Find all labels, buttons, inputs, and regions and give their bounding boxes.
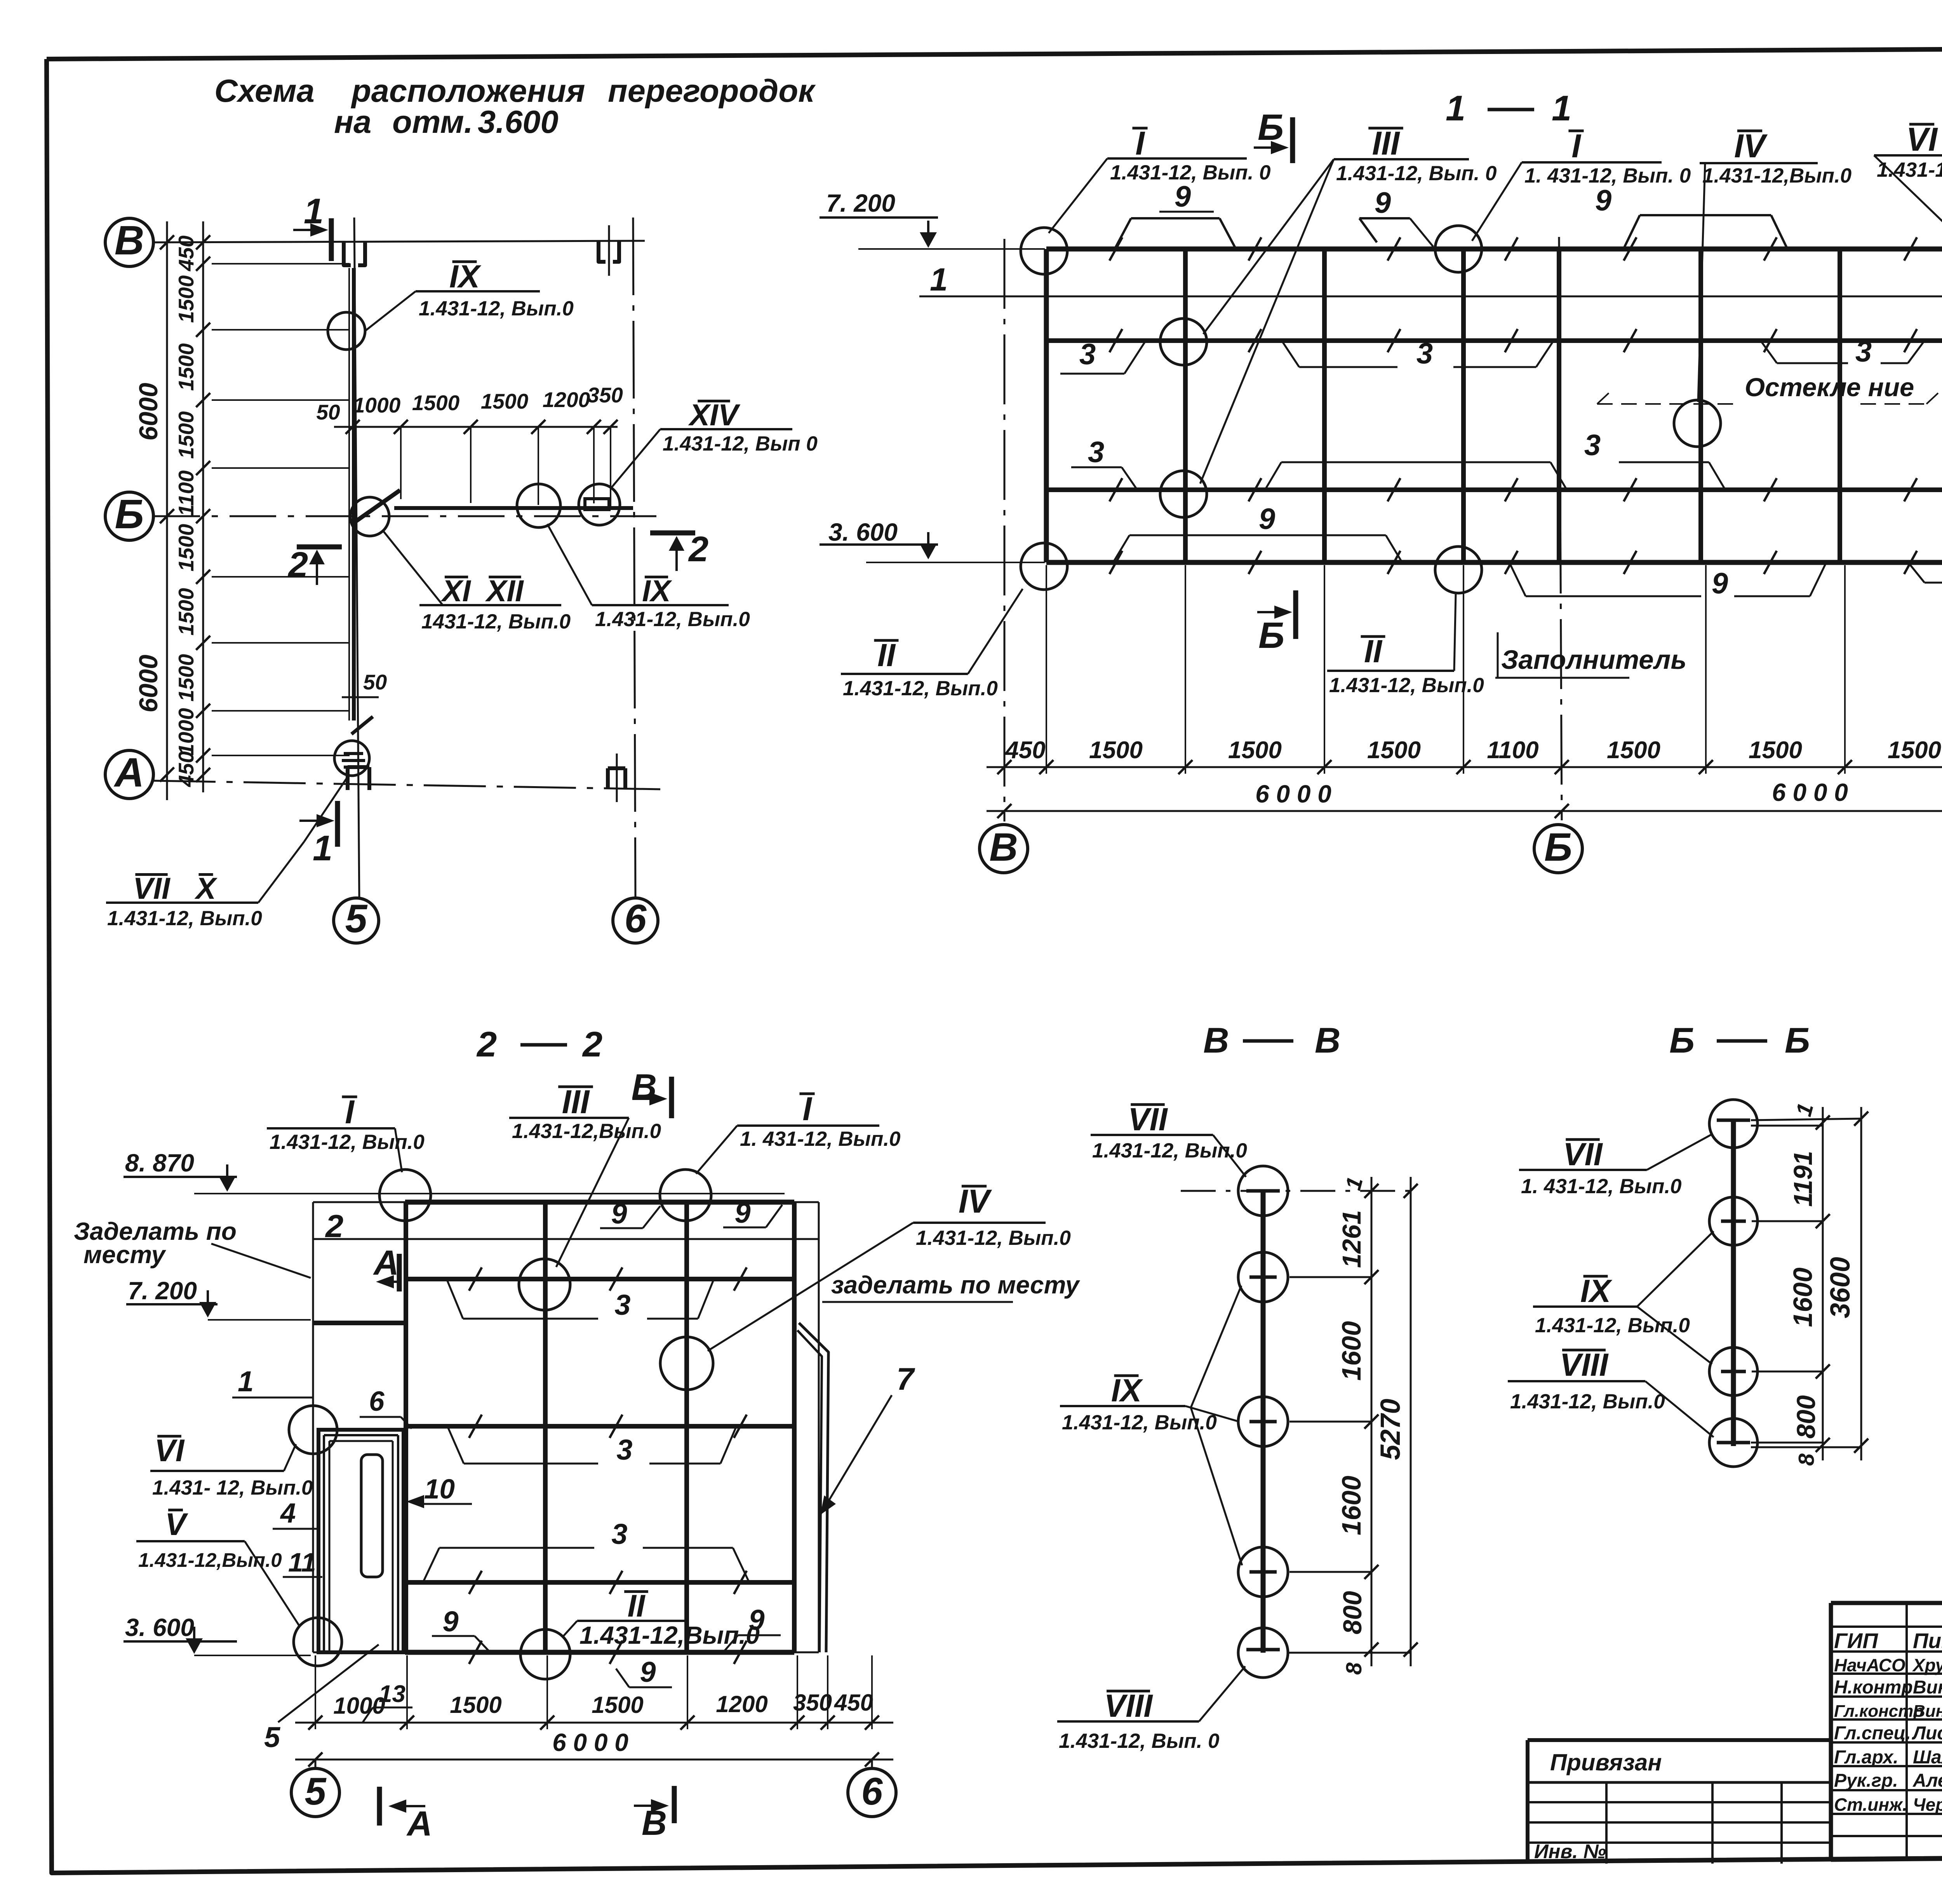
svg-text:VIII: VIII [1104, 1688, 1153, 1724]
svg-text:II: II [627, 1589, 646, 1624]
plan callout circle IX (wall 5) [328, 258, 574, 350]
1-1 pos 9 bracket top-right [1595, 184, 1787, 249]
svg-text:9: 9 [611, 1197, 627, 1230]
svg-text:Схема: Схема [214, 73, 315, 109]
1-1 Остекление label [1597, 373, 1938, 404]
svg-text:1600: 1600 [1336, 1476, 1366, 1535]
plan 50 offset label (lower) [342, 670, 387, 697]
Б-Б callout IX [1533, 1231, 1714, 1364]
svg-text:2: 2 [476, 1025, 497, 1064]
2-2 junction circles [379, 1170, 431, 1221]
svg-text:7. 200: 7. 200 [128, 1277, 197, 1305]
2-2 thick chords [405, 1202, 794, 1652]
svg-text:6000: 6000 [134, 383, 163, 440]
svg-text:1261: 1261 [1337, 1210, 1366, 1268]
В-В dim line outer [1375, 1177, 1418, 1666]
1-1 circle I-right [1435, 226, 1482, 272]
svg-text:II: II [877, 637, 896, 673]
svg-text:9: 9 [640, 1656, 656, 1688]
svg-text:1191: 1191 [1789, 1151, 1818, 1207]
plan column 5/B [344, 241, 365, 265]
svg-text:800: 800 [1792, 1395, 1821, 1439]
Б-Б callout VIII [1508, 1347, 1714, 1437]
svg-text:350: 350 [793, 1690, 832, 1716]
svg-text:1600: 1600 [1788, 1267, 1818, 1327]
svg-text:1.431-12, Вып.0: 1.431-12, Вып.0 [1092, 1139, 1247, 1162]
svg-text:Пивторак: Пивторак [1913, 1629, 1942, 1653]
svg-text:3600: 3600 [1825, 1257, 1856, 1318]
svg-text:1500: 1500 [1888, 737, 1941, 764]
2-2 label заделать по месту (right) [822, 1271, 1081, 1302]
2-2 section mark А top [373, 1244, 399, 1291]
В-В circles [1238, 1166, 1288, 1678]
2-2 section mark В bottom [634, 1786, 674, 1843]
svg-text:1.431-12, Вып 0: 1.431-12, Вып 0 [663, 432, 818, 455]
svg-text:1.431-12, Вып. 0: 1.431-12, Вып. 0 [1336, 162, 1497, 185]
svg-text:2: 2 [287, 545, 308, 585]
svg-text:4: 4 [280, 1498, 296, 1529]
1-1 pos label 1 [919, 261, 1942, 298]
svg-text:1: 1 [1446, 89, 1465, 128]
svg-text:6 0 0 0: 6 0 0 0 [552, 1728, 628, 1756]
svg-text:1.431-12, Вып.0: 1.431-12, Вып.0 [595, 608, 750, 631]
svg-text:1.431-12, Вып.0: 1.431-12, Вып.0 [843, 677, 998, 700]
svg-text:месту: месту [84, 1241, 167, 1269]
svg-text:9: 9 [1712, 567, 1728, 600]
svg-text:1500: 1500 [1367, 737, 1421, 764]
1-1 bottom dim extension lines [1046, 565, 1942, 774]
svg-text:перегородок: перегородок [608, 73, 816, 109]
2-2 callout IV [708, 1183, 1071, 1351]
1-1 callout II left [841, 589, 1023, 700]
Б-Б callout VII [1519, 1134, 1712, 1198]
svg-text:Ст.инж.: Ст.инж. [1834, 1794, 1907, 1815]
1-1 callout III [1200, 125, 1497, 484]
plan grid circle B [105, 218, 153, 266]
1-1 grid circle В [980, 825, 1028, 873]
svg-text:1100: 1100 [174, 470, 198, 516]
1-1 grid circle Б [1534, 825, 1582, 873]
svg-text:Рук.гр.: Рук.гр. [1834, 1770, 1898, 1791]
svg-text:1. 431-12, Вып.0: 1. 431-12, Вып.0 [1521, 1175, 1682, 1198]
svg-text:1.431-12,Вып.0: 1.431-12,Вып.0 [138, 1549, 282, 1571]
svg-text:3: 3 [1855, 335, 1872, 368]
2-2 callout II [562, 1589, 760, 1649]
svg-text:1500: 1500 [174, 524, 198, 571]
svg-text:Привязан: Привязан [1550, 1749, 1662, 1775]
2-2 callout V [136, 1507, 300, 1627]
svg-text:VI: VI [155, 1433, 185, 1468]
svg-text:Б: Б [1544, 825, 1572, 869]
svg-text:2: 2 [325, 1208, 343, 1244]
svg-text:IX: IX [642, 574, 672, 608]
2-2 label Заделать по месту (left) [74, 1217, 311, 1278]
svg-text:VII: VII [133, 871, 171, 905]
svg-text:6: 6 [861, 1770, 883, 1813]
plan axis line B [153, 241, 645, 242]
section Б-Б title [1669, 1021, 1810, 1060]
plan callout circle IX (wall Б) [517, 484, 750, 631]
В-В post [1246, 1191, 1280, 1653]
svg-text:1500: 1500 [1228, 737, 1282, 764]
svg-text:1.431-12, Вып.0: 1.431-12, Вып.0 [1329, 674, 1484, 697]
Б-Б circles [1709, 1100, 1758, 1467]
1-1 pos 3 rail2 right bracket [1761, 335, 1925, 368]
svg-text:5: 5 [345, 896, 368, 941]
1-1 junction circles [1021, 228, 1067, 274]
plan dim extension lines [153, 242, 350, 755]
1-1 section mark Б top [1254, 107, 1293, 163]
svg-text:5270: 5270 [1375, 1399, 1406, 1460]
svg-text:5: 5 [305, 1770, 327, 1813]
svg-text:50: 50 [316, 400, 340, 424]
plan grid circle А [105, 750, 153, 799]
svg-text:Гл.спец.: Гл.спец. [1834, 1723, 1911, 1744]
svg-text:1500: 1500 [174, 411, 198, 459]
2-2 pos 3 brackets [423, 1279, 749, 1582]
1-1 callout II right [1327, 594, 1484, 697]
svg-text:Шаломеев: Шаломеев [1913, 1747, 1942, 1768]
2-2 pos labels [232, 1365, 313, 1398]
svg-text:XII: XII [485, 574, 524, 608]
2-2 posts [406, 1202, 794, 1652]
svg-text:3. 600: 3. 600 [125, 1613, 194, 1641]
svg-text:50: 50 [363, 670, 387, 694]
plan column 6/B [599, 225, 619, 276]
svg-text:6 0 0 0: 6 0 0 0 [1255, 780, 1331, 808]
svg-text:3. 600: 3. 600 [828, 518, 898, 546]
svg-text:1100: 1100 [1487, 737, 1538, 764]
svg-text:Винклер: Винклер [1913, 1677, 1942, 1698]
1-1 frame chords [1046, 249, 1942, 562]
svg-text:Н.контр: Н.контр [1834, 1677, 1913, 1698]
svg-text:1500: 1500 [412, 391, 460, 415]
svg-text:9: 9 [1595, 184, 1611, 217]
В-В callout IX [1060, 1286, 1242, 1565]
svg-text:1.431-12, Вып. 0: 1.431-12, Вып. 0 [1877, 158, 1942, 181]
svg-text:1500: 1500 [1607, 737, 1660, 764]
section В-В title [1203, 1021, 1340, 1060]
svg-text:V: V [165, 1507, 188, 1542]
svg-text:1500: 1500 [481, 389, 529, 413]
svg-text:1: 1 [930, 261, 948, 298]
svg-text:3: 3 [616, 1434, 632, 1466]
svg-text:III: III [562, 1084, 590, 1121]
svg-text:3.600: 3.600 [478, 104, 559, 140]
svg-text:В: В [115, 218, 144, 263]
plan column 6/А [608, 754, 625, 802]
svg-text:1.431-12, Вып.0: 1.431-12, Вып.0 [419, 297, 574, 320]
svg-text:3: 3 [1584, 429, 1601, 462]
svg-text:8: 8 [1794, 1453, 1819, 1466]
svg-text:IV: IV [959, 1183, 992, 1220]
svg-text:А: А [373, 1244, 399, 1283]
elevation 3.600 (1-1) [820, 518, 1045, 562]
section 2-2 title [476, 1025, 602, 1064]
svg-text:XI: XI [440, 574, 471, 608]
svg-text:11: 11 [288, 1547, 316, 1577]
2-2 thin rail (pos 2) [313, 1208, 819, 1244]
1-1 callout I left [1049, 125, 1271, 233]
privyazan block [1528, 1740, 1831, 1864]
svg-text:Гл.констр: Гл.констр [1834, 1702, 1924, 1721]
svg-text:450: 450 [174, 235, 198, 272]
1-1 circles III [1160, 318, 1207, 517]
2-2 door [318, 1430, 404, 1652]
svg-text:1.431-12, Вып. 0: 1.431-12, Вып. 0 [1059, 1730, 1220, 1753]
svg-text:X: X [194, 871, 218, 905]
Б-Б top ext lines [1751, 1119, 1861, 1447]
1-1 circles II bottom [1021, 543, 1482, 593]
plan callout circle XIV + plate [579, 398, 818, 525]
2-2 dim row 2 [295, 1728, 893, 1767]
svg-text:9: 9 [734, 1197, 750, 1229]
В-В callout VIII [1057, 1666, 1245, 1753]
1-1 posts [1185, 249, 1840, 562]
svg-text:1: 1 [238, 1365, 254, 1398]
svg-text:450: 450 [1004, 737, 1045, 764]
svg-text:9: 9 [442, 1605, 458, 1638]
1-1 rails [1046, 341, 1942, 490]
svg-text:8: 8 [1342, 1662, 1366, 1675]
svg-text:3: 3 [614, 1289, 630, 1321]
2-2 pos 9 labels [600, 1197, 660, 1230]
svg-text:1500: 1500 [1089, 737, 1143, 764]
svg-text:Винклер: Винклер [1913, 1702, 1942, 1721]
1-1 dim row 2 (6000+6000) [987, 778, 1942, 818]
plan axis line 6 vertical [633, 218, 635, 898]
svg-text:1431-12, Вып.0: 1431-12, Вып.0 [421, 610, 571, 633]
svg-text:1000: 1000 [353, 393, 401, 417]
svg-text:1500: 1500 [174, 654, 198, 701]
1-1 pos 9 bracket bottom-right long [1509, 562, 1826, 600]
2-2 callout I right [696, 1091, 901, 1174]
plan callout VII X (bottom) [106, 777, 348, 930]
Б-Б dim line inner [1788, 1100, 1830, 1465]
svg-text:Б: Б [1258, 615, 1284, 656]
svg-text:Хрупало: Хрупало [1912, 1655, 1942, 1675]
svg-text:Лисичкин: Лисичкин [1912, 1723, 1942, 1744]
axis Б vertical (1-1) [1559, 237, 1562, 820]
plan section mark 2 (left) [287, 545, 342, 585]
svg-text:1.431- 12, Вып.0: 1.431- 12, Вып.0 [152, 1476, 313, 1499]
plan axis line Б (dash-dot) [153, 515, 656, 517]
svg-text:350: 350 [587, 383, 623, 407]
2-2 dim extension lines [315, 1655, 872, 1729]
svg-text:А: А [406, 1805, 432, 1843]
svg-text:Инв. №: Инв. № [1534, 1840, 1606, 1862]
svg-text:7. 200: 7. 200 [826, 189, 895, 217]
1-1 pos 3 rail3 left [1071, 436, 1137, 490]
svg-text:6: 6 [369, 1386, 385, 1417]
svg-text:1600: 1600 [1336, 1321, 1366, 1381]
svg-text:III: III [1372, 125, 1401, 162]
plan grid circle 6 [613, 896, 658, 943]
svg-text:Б: Б [115, 491, 144, 537]
svg-text:на: на [334, 104, 371, 140]
title block outer [1831, 1603, 1942, 1860]
plan column 5/А [348, 767, 369, 790]
svg-text:1.431-12, Вып.0: 1.431-12, Вып.0 [1510, 1390, 1665, 1413]
svg-text:НачАСО: НачАСО [1834, 1655, 1905, 1675]
2-2 grid circle 6 [848, 1760, 896, 1817]
svg-text:1: 1 [1552, 89, 1571, 128]
svg-text:1: 1 [313, 828, 332, 868]
1-1 label Заполнитель [1495, 632, 1686, 678]
1-1 rail slash marks [1110, 237, 1917, 574]
plan axis line 5 vertical [354, 218, 359, 898]
svg-text:В: В [1203, 1021, 1229, 1060]
2-2 callout III [509, 1084, 661, 1267]
1-1 circle IV [1674, 400, 1721, 447]
svg-text:3: 3 [1079, 338, 1096, 371]
svg-text:IX: IX [449, 258, 482, 294]
svg-text:Черкасова: Черкасова [1913, 1794, 1942, 1815]
1-1 section mark Б bottom [1257, 590, 1296, 656]
svg-text:1.431-12, Вып.0: 1.431-12, Вып.0 [1535, 1314, 1690, 1337]
1-1 pos 3 rail3 long bracket [1265, 429, 1725, 490]
svg-text:I: I [1135, 125, 1145, 162]
svg-text:450: 450 [834, 1690, 873, 1716]
2-2 callout VI [150, 1433, 313, 1499]
svg-text:IV: IV [1734, 128, 1768, 165]
plan section mark 1 (top) [293, 191, 331, 261]
svg-text:3: 3 [1416, 337, 1433, 370]
2-2 section mark В top [632, 1067, 672, 1118]
svg-text:Остекле ние: Остекле ние [1745, 373, 1914, 402]
svg-text:450: 450 [174, 751, 198, 787]
plan partition end mark at bottom (ticks) [342, 717, 373, 767]
svg-text:IX: IX [1580, 1273, 1613, 1309]
svg-text:1500: 1500 [450, 1692, 501, 1718]
elevation 7.200 (2-2) [126, 1277, 311, 1320]
svg-text:1000: 1000 [333, 1693, 385, 1719]
1-1 pos 9 bracket bottom-left [1113, 503, 1402, 562]
2-2 rail slash marks [469, 1267, 747, 1664]
plan dim chain above Б [316, 383, 623, 509]
svg-text:1500: 1500 [174, 275, 198, 323]
svg-text:1.431-12,Вып.0: 1.431-12,Вып.0 [1702, 164, 1852, 187]
plan circle at partition bottom end [334, 741, 369, 776]
2-2 grid circle 5 [291, 1760, 339, 1817]
1-1 callout IV [1698, 128, 1852, 402]
1-1 pos 9 mid-top [1359, 186, 1433, 247]
svg-text:1200: 1200 [716, 1691, 767, 1717]
elevation 3.600 (2-2) [124, 1613, 311, 1655]
svg-text:1.431-12,Вып.0: 1.431-12,Вып.0 [579, 1621, 760, 1649]
1-1 callout VI [1874, 121, 1942, 258]
svg-text:IX: IX [1111, 1372, 1143, 1408]
svg-text:9: 9 [748, 1604, 764, 1636]
2-2 dim row 1 [295, 1690, 893, 1730]
plan grid circle 5 [334, 896, 379, 943]
svg-text:Б: Б [1669, 1021, 1695, 1060]
plan axis line А [153, 781, 660, 789]
svg-text:Гл.арх.: Гл.арх. [1834, 1747, 1898, 1768]
svg-text:1.431-12,Вып.0: 1.431-12,Вып.0 [512, 1120, 661, 1143]
svg-text:I: I [345, 1094, 355, 1131]
2-2 outer thin outline [313, 1202, 819, 1652]
1-1 pos 3 rail2 left [1060, 338, 1145, 374]
svg-text:Алехова: Алехова [1912, 1770, 1942, 1791]
В-В callout VII [1091, 1101, 1247, 1177]
svg-text:I: I [802, 1091, 813, 1128]
svg-text:1500: 1500 [174, 343, 198, 391]
section 1-1 title [1446, 89, 1571, 128]
svg-text:1000: 1000 [174, 708, 198, 755]
svg-text:1500: 1500 [1749, 737, 1802, 764]
elevation 7.200 (1-1) [820, 189, 1045, 249]
svg-text:10: 10 [424, 1474, 455, 1505]
svg-text:6: 6 [625, 896, 647, 941]
1-1 callout I right [1472, 128, 1691, 241]
plan outer dim line 6000x2 [134, 221, 174, 800]
svg-text:9: 9 [1175, 180, 1191, 213]
svg-text:800: 800 [1338, 1591, 1367, 1634]
svg-text:заделать по месту: заделать по месту [831, 1271, 1081, 1299]
plan grid circle Б [105, 491, 153, 540]
2-2 section mark А bottom [379, 1787, 432, 1843]
plan partition wall on axis 5 [349, 268, 354, 721]
svg-text:1200: 1200 [543, 388, 590, 412]
plan title [214, 73, 816, 140]
svg-text:ГИП: ГИП [1834, 1629, 1878, 1653]
svg-text:XIV: XIV [688, 398, 741, 432]
1-1 pos 9 near door bottom [1908, 562, 1942, 596]
elevation 8.870 [124, 1149, 785, 1194]
svg-text:3: 3 [611, 1518, 627, 1550]
svg-text:А: А [113, 750, 144, 795]
В-В top line [1181, 1190, 1411, 1192]
svg-text:9: 9 [1259, 503, 1275, 536]
svg-text:VIII: VIII [1560, 1347, 1609, 1383]
svg-text:1500: 1500 [174, 588, 198, 635]
plan section mark 2 (right) [650, 529, 708, 571]
svg-text:Б: Б [1785, 1021, 1810, 1060]
signature table [1831, 1603, 1942, 1860]
1-1 dim row 1 [987, 737, 1942, 774]
svg-text:VII: VII [1563, 1136, 1603, 1172]
svg-text:1.431-12, Вып.0: 1.431-12, Вып.0 [270, 1131, 425, 1154]
svg-text:Б: Б [1258, 107, 1284, 148]
1-1 pos 3 rail2 mid bracket [1282, 337, 1554, 370]
svg-text:отм.: отм. [392, 104, 473, 140]
svg-text:1500: 1500 [592, 1692, 643, 1718]
axis B vertical (1-1) [1004, 239, 1006, 821]
plan callout circle XI XII (junction) [350, 497, 571, 633]
svg-text:1.431-12, Вып.0: 1.431-12, Вып.0 [107, 907, 262, 930]
1-1 pos 9 bracket top-left [1115, 180, 1236, 249]
В-В dim extension lines [1288, 1277, 1411, 1653]
svg-text:I: I [1571, 128, 1582, 165]
plan inner dim line [174, 221, 210, 792]
svg-text:2: 2 [582, 1025, 602, 1064]
2-2 sloped strip (pos 7) [797, 1323, 828, 1652]
2-2 callout I left [267, 1094, 425, 1172]
svg-text:7: 7 [896, 1362, 915, 1397]
svg-text:8. 870: 8. 870 [125, 1149, 194, 1177]
Б-Б post [1717, 1120, 1750, 1446]
svg-text:Заполнитель: Заполнитель [1501, 645, 1686, 675]
svg-text:3: 3 [1088, 436, 1104, 469]
plan section mark 1 (bottom) [299, 801, 338, 868]
svg-text:II: II [1364, 633, 1383, 669]
plan partition diagonal end mark at Б [354, 490, 400, 522]
svg-text:5: 5 [264, 1721, 281, 1753]
svg-text:VI: VI [1906, 121, 1939, 158]
2-2 rails [313, 1279, 794, 1582]
В-В dim line inner [1336, 1174, 1378, 1674]
